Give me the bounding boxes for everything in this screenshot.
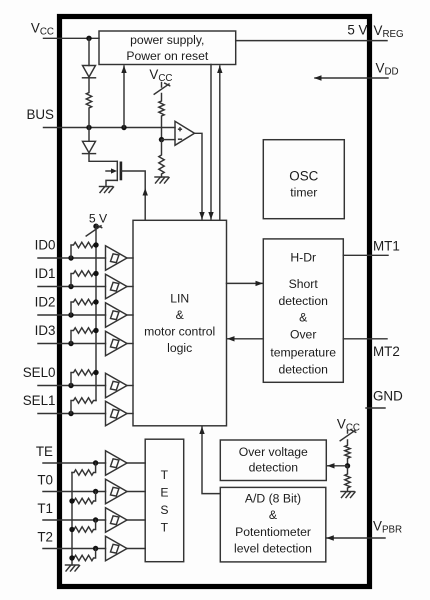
wire T2 input line (43, 548, 106, 550)
svg-text:level detection: level detection (234, 542, 312, 556)
svg-text:logic: logic (167, 341, 192, 355)
resistor R4 (divider top) (345, 440, 350, 466)
A/D converter box U7 (220, 487, 325, 562)
wire VCC pin to power supply box (44, 37, 100, 39)
node TE line junction (93, 460, 98, 465)
node ID1 rail junction (93, 271, 98, 276)
svg-text:MT1: MT1 (373, 239, 400, 254)
svg-text:detection: detection (249, 461, 298, 475)
pin label VCC (top left) (31, 21, 54, 38)
TEST box U8 (145, 439, 184, 562)
transistor Q1 (BUS driver MOSFET) (106, 161, 121, 186)
wire VCC branch down (88, 38, 90, 65)
svg-text:power supply,: power supply, (130, 33, 204, 47)
pin label SEL0 (23, 365, 56, 380)
wire MT1 pin (343, 254, 388, 256)
svg-text:Potentiometer: Potentiometer (235, 525, 311, 539)
wire BUS pin line (44, 127, 176, 129)
wire TE input line (43, 462, 106, 464)
svg-text:SEL0: SEL0 (23, 365, 56, 380)
node VCC-diode junction (86, 36, 91, 41)
IC outer border frame (60, 17, 370, 587)
wire BUS to power-on-reset with arrow (121, 66, 126, 128)
resistor R3 (to ground) (159, 140, 164, 177)
wire T0 input line (43, 491, 106, 493)
node T0 line junction (93, 489, 98, 494)
svg-text:T: T (161, 468, 169, 482)
wire SEL1 input line (38, 413, 106, 415)
wire A/D to logic (up arrow) (199, 427, 220, 494)
resistor (pull-down T0) (72, 492, 96, 504)
ground (test rail) (66, 565, 80, 571)
resistor R1 (diode to BUS) (86, 78, 91, 128)
node divider junction (345, 463, 350, 468)
label VCC (divider) (337, 417, 360, 434)
switch S2 (5V rail) (86, 225, 102, 236)
node BUS-diode junction (86, 125, 91, 130)
wire VREG output (236, 40, 387, 42)
node ID0 rail junction (93, 242, 98, 247)
wire SEL0 input line (38, 385, 106, 387)
wire logic to H-Dr (right arrow) (227, 281, 264, 286)
pin label T1 (37, 501, 53, 516)
svg-text:SEL1: SEL1 (23, 393, 56, 408)
svg-text:T0: T0 (37, 473, 53, 488)
node SEL1 line junction (68, 411, 73, 416)
pin label T2 (37, 530, 53, 545)
diode D2 (BUS to gate) (83, 128, 96, 154)
pin label VDD (376, 61, 399, 78)
pin label TE (36, 444, 53, 459)
pin label GND (373, 389, 403, 404)
resistor (pull-up ID2) (71, 299, 96, 315)
schmitt buffer (T2) (106, 536, 146, 560)
svg-text:&: & (299, 310, 307, 324)
resistor (pull-up ID3) (71, 328, 96, 344)
resistor (pull-up SEL1) (71, 398, 96, 414)
svg-text:TE: TE (36, 444, 53, 459)
svg-text:Short: Short (289, 277, 319, 291)
svg-text:Power on reset: Power on reset (126, 49, 209, 63)
svg-text:ID1: ID1 (35, 266, 56, 281)
node T2 rail junction (69, 555, 74, 560)
wire D2 to MOSFET gate (89, 154, 117, 162)
resistor (pull-up ID1) (71, 271, 96, 287)
schmitt buffer (ID2) (106, 303, 134, 327)
wire ID3 input line (38, 343, 106, 345)
svg-text:timer: timer (290, 186, 317, 200)
label VCC (comparator supply) (149, 67, 172, 84)
resistor (pull-down T1) (72, 520, 96, 532)
wire T1 input line (43, 519, 106, 521)
schmitt buffer (SEL1) (106, 401, 134, 425)
svg-text:S: S (160, 503, 168, 517)
svg-text:5 V: 5 V (347, 23, 367, 38)
power supply box U1 (99, 31, 236, 65)
svg-text:motor control: motor control (144, 325, 215, 339)
svg-text:T1: T1 (37, 501, 53, 516)
svg-text:Over: Over (290, 327, 316, 341)
svg-text:OSC: OSC (289, 169, 318, 184)
node comparator minus junction (159, 137, 164, 142)
svg-text:T: T (161, 521, 169, 535)
schmitt buffer (ID3) (106, 331, 134, 355)
wire TE pull-down rail (71, 473, 73, 566)
OSC timer box U4 (263, 140, 344, 219)
pin label MT2 (373, 344, 400, 359)
node ID2 rail junction (93, 299, 98, 304)
wire ID1 input line (38, 286, 106, 288)
schmitt buffer (SEL0) (106, 373, 134, 397)
wire H-Dr to logic (left arrow) (227, 336, 263, 341)
svg-text:&: & (269, 508, 277, 522)
wire logic to power supply (up arrow) (217, 66, 222, 221)
pin label SEL1 (23, 393, 56, 408)
label 5 V (top right) (347, 23, 367, 38)
node ID2 line junction (68, 312, 73, 317)
node ID3 rail junction (93, 328, 98, 333)
node T2 line junction (93, 546, 98, 551)
pin label ID0 (35, 238, 56, 253)
resistor (pull-up SEL0) (71, 370, 96, 386)
pin label BUS (26, 107, 54, 122)
pin label ID2 (35, 295, 56, 310)
node T1 rail junction (69, 527, 74, 532)
svg-text:ID3: ID3 (35, 323, 56, 338)
node T1 line junction (93, 517, 98, 522)
pin label ID1 (35, 266, 56, 281)
node ID3 line junction (68, 341, 73, 346)
label 5 V (input pull-up rail) (89, 212, 108, 226)
wire ID2 input line (38, 314, 106, 316)
pin label MT1 (373, 239, 400, 254)
svg-text:&: & (176, 308, 184, 322)
switch S3 (VCC divider) (340, 430, 356, 441)
wire minus input stub (162, 139, 176, 141)
over voltage detection box U6 (220, 440, 326, 481)
schmitt buffer (T0) (106, 479, 146, 503)
pin label VREG (374, 23, 404, 40)
wire 5V pull-up rail (95, 226, 97, 400)
svg-text:Over voltage: Over voltage (239, 445, 308, 459)
svg-text:ID2: ID2 (35, 295, 56, 310)
wire VDD pin with arrow (314, 75, 388, 80)
ground (MOSFET source) (100, 187, 114, 193)
resistor R5 (divider bottom) (345, 466, 350, 492)
svg-text:E: E (160, 486, 168, 500)
svg-text:detection: detection (278, 362, 327, 376)
switch S1 (VCC supply) (154, 83, 170, 95)
pin label VPBR (373, 519, 402, 536)
wire VPBR pin with arrow (326, 535, 385, 540)
wire divider to over-voltage box (327, 463, 348, 468)
wire comparator output to logic (195, 133, 205, 219)
node ID0 line junction (68, 255, 73, 260)
svg-text:temperature: temperature (270, 345, 336, 359)
wire ID0 input line (38, 257, 106, 259)
resistor (pull-down TE) (72, 463, 96, 475)
resistor R2 (VCC pull-up) (159, 94, 164, 140)
wire power supply to logic (down arrow) (208, 65, 213, 220)
svg-text:detection: detection (278, 294, 327, 308)
svg-text:GND: GND (373, 389, 403, 404)
comparator U2 (BUS receiver) (175, 121, 195, 145)
node ID1 line junction (68, 284, 73, 289)
LIN & motor control logic box U3 (133, 220, 227, 425)
schmitt buffer (ID1) (106, 274, 134, 298)
schmitt buffer (T1) (106, 508, 146, 532)
resistor (pull-up ID0) (71, 242, 96, 258)
H-Driver box U5 (263, 239, 343, 382)
svg-text:H-Dr: H-Dr (290, 250, 316, 264)
schmitt buffer (ID0) (106, 246, 134, 270)
diode D1 (VCC to BUS) (83, 66, 96, 78)
node 5V rail top (93, 224, 98, 229)
ground (below R3) (155, 177, 169, 183)
resistor (pull-down T2) (72, 549, 96, 561)
svg-text:BUS: BUS (26, 107, 54, 122)
node T0 rail junction (69, 498, 74, 503)
ground (divider) (341, 492, 355, 498)
wire MOSFET drain to logic with arrow (122, 171, 148, 220)
svg-text:A/D (8 Bit): A/D (8 Bit) (245, 491, 301, 505)
wire MT2 pin (343, 338, 387, 340)
pin label ID3 (35, 323, 56, 338)
svg-text:5 V: 5 V (89, 212, 108, 226)
svg-text:ID0: ID0 (35, 238, 56, 253)
node SEL0 line junction (68, 383, 73, 388)
svg-text:MT2: MT2 (373, 344, 400, 359)
pin label T0 (37, 473, 53, 488)
node BUS-wakeup junction (121, 125, 126, 130)
svg-text:LIN: LIN (170, 292, 189, 306)
node SEL0 rail junction (93, 370, 98, 375)
schmitt buffer (TE) (106, 451, 146, 475)
svg-text:T2: T2 (37, 530, 53, 545)
wire GND pin stub (366, 407, 385, 409)
